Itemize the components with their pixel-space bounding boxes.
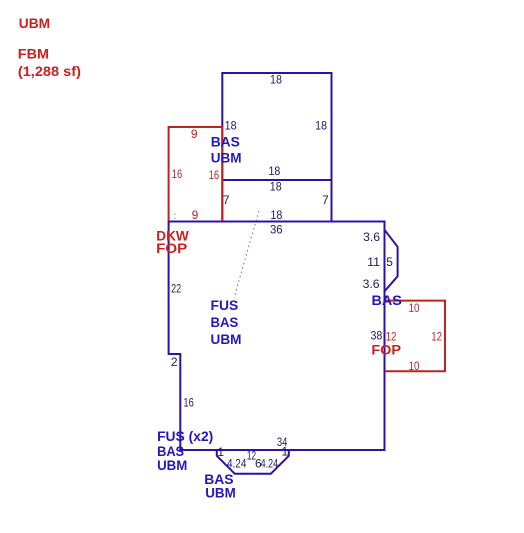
svg-text:18: 18 bbox=[268, 164, 280, 178]
svg-text:UBM: UBM bbox=[211, 331, 242, 347]
svg-text:1: 1 bbox=[282, 445, 289, 459]
svg-text:12: 12 bbox=[386, 329, 397, 343]
svg-text:FOP: FOP bbox=[156, 241, 187, 256]
svg-text:2: 2 bbox=[171, 355, 178, 369]
wall: bottom bay window bbox=[217, 450, 289, 474]
svg-text:18: 18 bbox=[225, 119, 237, 133]
wall: right bay bump bbox=[385, 230, 398, 291]
wall: main outline bbox=[169, 222, 385, 451]
svg-text:18: 18 bbox=[315, 119, 327, 133]
svg-text:4.24: 4.24 bbox=[261, 456, 279, 470]
svg-text:18: 18 bbox=[270, 208, 282, 222]
svg-text:18: 18 bbox=[270, 73, 282, 87]
svg-text:18: 18 bbox=[270, 179, 282, 193]
svg-text:BAS: BAS bbox=[211, 314, 239, 330]
svg-text:FBM: FBM bbox=[18, 46, 49, 61]
svg-text:FOP: FOP bbox=[371, 342, 401, 357]
svg-text:(1,288 sf): (1,288 sf) bbox=[18, 64, 81, 79]
svg-text:9: 9 bbox=[192, 208, 199, 222]
svg-text:22: 22 bbox=[171, 282, 181, 296]
svg-text:9: 9 bbox=[191, 127, 198, 141]
wall: DKW/FOP red rectangle bbox=[169, 127, 223, 221]
svg-text:16: 16 bbox=[209, 168, 220, 182]
svg-text:4.24: 4.24 bbox=[227, 456, 247, 470]
svg-text:16: 16 bbox=[183, 395, 194, 409]
svg-text:3.6: 3.6 bbox=[363, 230, 380, 244]
svg-text:5: 5 bbox=[386, 255, 393, 269]
svg-text:BAS: BAS bbox=[372, 292, 402, 308]
leader: dotted line to FUS/BAS/UBM bbox=[234, 211, 259, 298]
svg-text:UBM: UBM bbox=[157, 457, 187, 473]
svg-text:36: 36 bbox=[270, 222, 283, 236]
svg-text:38: 38 bbox=[371, 329, 383, 343]
leader: dotted tick near DKW bbox=[174, 214, 176, 221]
wire bbox=[169, 73, 445, 474]
svg-text:UBM: UBM bbox=[205, 484, 236, 500]
wall: top rectangle (BAS/UBM upper) bbox=[222, 73, 331, 222]
svg-text:3.6: 3.6 bbox=[363, 277, 380, 291]
svg-text:11: 11 bbox=[367, 255, 380, 269]
svg-text:10: 10 bbox=[409, 359, 420, 373]
svg-text:FUS: FUS bbox=[211, 297, 239, 313]
svg-text:1: 1 bbox=[217, 445, 224, 459]
wall: FOP red rectangle right bbox=[385, 301, 445, 372]
svg-text:UBM: UBM bbox=[19, 16, 50, 31]
svg-text:7: 7 bbox=[223, 193, 230, 207]
svg-text:16: 16 bbox=[172, 167, 183, 181]
svg-text:10: 10 bbox=[409, 301, 420, 315]
svg-text:12: 12 bbox=[431, 329, 442, 343]
svg-text:FUS (x2): FUS (x2) bbox=[157, 428, 213, 444]
svg-text:UBM: UBM bbox=[211, 150, 242, 166]
svg-text:7: 7 bbox=[322, 193, 329, 207]
svg-text:BAS: BAS bbox=[211, 133, 240, 149]
wall: interior line y=180 bbox=[222, 179, 331, 181]
